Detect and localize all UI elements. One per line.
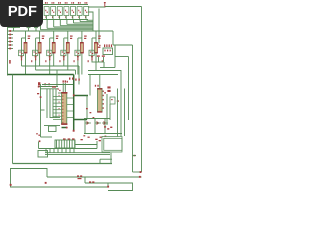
relay K2 outer box	[102, 137, 122, 153]
wire vertical x115	[114, 45, 116, 68]
testpoint TP1	[77, 175, 82, 179]
wire thick y95	[74, 95, 88, 97]
wire diode drop 1	[84, 119, 86, 134]
PDF badge	[0, 0, 43, 27]
label U9 pin numbers	[58, 88, 61, 91]
wire x115 stub	[114, 45, 116, 57]
wire capped stub 3	[34, 28, 38, 31]
wire vertical x121	[120, 70, 122, 136]
wire OK2 output drop	[46, 20, 48, 29]
junction right y177	[139, 176, 141, 178]
resistor R1	[22, 31, 31, 75]
wire lower bus y70	[36, 69, 76, 71]
diode VD5	[75, 50, 80, 60]
relay K2 inner box	[104, 138, 122, 150]
wire x40 corner y137	[41, 136, 53, 138]
resistor R6	[92, 31, 101, 70]
component box M1	[110, 97, 119, 104]
diode D1	[85, 121, 91, 125]
resistor R2	[36, 31, 45, 70]
wire OK8 output run	[87, 19, 93, 21]
label red pins	[45, 83, 57, 87]
label U9 pin number 3	[58, 108, 61, 109]
label red scatter b	[104, 92, 106, 93]
wire x85 drop	[84, 177, 86, 183]
wire diode-row bottom	[84, 133, 122, 135]
wire bus-wire b0	[46, 89, 48, 118]
ground symbol box	[49, 126, 57, 132]
IC U9 body	[61, 92, 67, 125]
wire y125 link	[44, 125, 60, 127]
wire OK5 output run	[67, 23, 93, 25]
wire OK3 output run	[54, 26, 93, 28]
wire U9 left pin 6	[53, 109, 62, 111]
wire x38 drop	[38, 142, 40, 149]
label net dash 3	[59, 60, 60, 62]
wire label stub b	[103, 57, 105, 62]
wire bus-wire b1	[49, 89, 51, 118]
wire OK6 output drop	[73, 20, 75, 23]
wire lower bus y62	[92, 61, 105, 63]
wire main bus	[8, 30, 114, 32]
wire OK7 output run	[80, 21, 93, 23]
optocoupler OK4	[57, 2, 62, 19]
junction U9 bottom	[66, 127, 68, 129]
diode VD2	[33, 50, 38, 60]
label net dash 5	[88, 60, 89, 62]
wire OK2 output run	[47, 27, 93, 29]
wire right y74 run	[88, 74, 118, 76]
label JP1	[89, 181, 94, 183]
wire y56 link	[115, 56, 129, 58]
wire U9 left stub	[58, 92, 62, 94]
diode VD1	[19, 50, 24, 60]
junction U-bottom	[140, 171, 142, 173]
symbol red SJ2	[107, 86, 110, 92]
wire left long vertical x12	[12, 75, 14, 164]
label net dash 4	[74, 60, 75, 62]
connector K1 teeth	[57, 140, 75, 148]
wire OK5 output drop	[66, 20, 68, 25]
wire capped stub 2	[27, 28, 31, 31]
switch S1 box	[38, 151, 48, 158]
label red x37	[37, 93, 39, 94]
wire y86 link	[39, 86, 59, 88]
wire U9 left pin 8	[53, 115, 62, 117]
label red scatter a	[86, 108, 94, 118]
wire thick y119	[74, 119, 87, 121]
wire jog segment	[88, 12, 93, 31]
supply symbol +5V top	[104, 2, 106, 7]
wire U10 top stub	[99, 75, 101, 89]
wire K1 pin drops	[46, 149, 74, 153]
label red GND	[36, 133, 40, 136]
wire lower bus y67	[100, 67, 115, 69]
wire vertical x42	[40, 84, 42, 137]
connector J1 stem	[7, 25, 9, 76]
optocoupler OK5	[64, 2, 69, 19]
label net dash 6	[102, 60, 103, 62]
wire OK7 output drop	[79, 20, 81, 22]
wire diode drop 2	[94, 119, 96, 134]
wire diode drop 3	[104, 119, 106, 134]
junction x108	[107, 186, 109, 188]
wire jumper stub	[99, 159, 101, 163]
wire label stub a	[98, 57, 100, 62]
wire jumper y159	[100, 158, 112, 160]
wire right vertical net GND	[132, 45, 134, 172]
label net dash 1	[31, 60, 32, 62]
wire U9 left pin 5	[53, 105, 62, 107]
wire double bus lower	[45, 153, 110, 155]
wire diode-row top	[84, 118, 110, 120]
wire row1 lower bus	[37, 19, 88, 21]
wire U9 top stub a	[62, 83, 64, 92]
wire pin-row y88	[41, 88, 59, 90]
label red cluster mid	[104, 126, 112, 129]
label U9 pin number 2	[58, 101, 61, 102]
wire y144	[75, 144, 97, 146]
wire long y163	[13, 163, 113, 165]
optocoupler OK1	[38, 2, 43, 19]
diode VD6	[89, 50, 94, 60]
wire x108 link	[107, 183, 109, 187]
wire bus-wire b2	[52, 89, 54, 118]
label net dash 2	[45, 60, 46, 62]
resistor-network U10	[97, 88, 103, 113]
wire bottom loop	[11, 169, 109, 188]
label U9 pin number 1	[58, 95, 61, 96]
optocoupler OK3	[51, 2, 56, 19]
connector K1 body	[55, 140, 75, 148]
junction dot	[38, 86, 40, 88]
junction x45	[45, 182, 47, 184]
wire OK4 output drop	[59, 20, 61, 26]
resistor R3	[50, 31, 59, 75]
label red node N1	[97, 43, 100, 47]
wire vertical node N1	[98, 9, 100, 44]
resistor R5	[78, 31, 87, 75]
wire x87 drop	[86, 96, 88, 120]
diode VD4	[61, 50, 66, 60]
wire lower bus y66	[22, 65, 80, 67]
wire y66 corner drop	[78, 66, 80, 85]
label U9 pin number 4	[58, 115, 61, 116]
label red below diodes	[83, 135, 106, 138]
wire U9 left pin 3	[53, 99, 62, 101]
wire U9 right pin 2	[67, 104, 74, 106]
wire U9 left pin 4	[53, 102, 62, 104]
junction dot left of K1	[39, 140, 41, 142]
wire thick bus y74	[8, 74, 74, 76]
wire OK1 output drop	[40, 20, 42, 30]
wire OK8 output drop	[86, 19, 88, 22]
connector J1 pin 6	[8, 48, 14, 50]
junction thick bottom	[73, 130, 75, 132]
optocoupler OK6	[71, 2, 76, 19]
connector J1 pin 4	[8, 41, 14, 43]
wire x40 stub y110	[41, 109, 45, 111]
label red above U9	[63, 80, 68, 82]
wire y148	[39, 148, 98, 150]
wire U9 right pin 3	[67, 110, 74, 112]
wire x128 vertical	[128, 57, 130, 121]
connector J1 pin 7	[9, 60, 11, 64]
wire U9 left pin 7	[53, 112, 62, 114]
wire right y70 run	[88, 70, 121, 72]
wire y84 feed	[42, 84, 74, 86]
wire x107 vertical	[106, 94, 108, 125]
junction bottom-left	[10, 184, 12, 186]
wire capped stub 1	[12, 28, 16, 31]
wire x124 vertical	[124, 89, 126, 137]
connector J1 pin 2	[8, 34, 14, 36]
wire U9 bottom	[62, 127, 68, 129]
wire bus-wire b3	[55, 89, 57, 118]
connector CN1 body	[103, 48, 113, 55]
connector CN1 pins	[104, 44, 112, 51]
wire bus drop to CN1	[112, 31, 114, 45]
wire x90 stub	[89, 75, 91, 96]
label net names	[97, 55, 105, 56]
wire OK3 output drop	[53, 20, 55, 28]
wire top bus upper	[37, 4, 88, 6]
diode D2	[95, 121, 101, 125]
label red above K1	[63, 138, 75, 139]
wire bottom-right loop	[108, 183, 133, 191]
optocoupler OK8	[84, 2, 89, 19]
wire corner x104	[103, 62, 105, 68]
wire CN1 to right net	[113, 44, 133, 46]
wire U9 right pin 1	[67, 97, 74, 99]
wire U9 right pin 4	[67, 117, 74, 119]
wire double bus upper	[45, 152, 110, 154]
wire top bus to right edge	[88, 6, 142, 9]
resistor R4	[64, 31, 73, 70]
connector J1 pin 5	[8, 44, 14, 46]
connector J1 pin 1	[8, 30, 14, 32]
junction dot x42	[40, 96, 42, 98]
wire x97 drop	[96, 141, 98, 149]
wire U9 left pin 2	[53, 96, 62, 98]
optocoupler OK2	[44, 2, 49, 19]
wire x111 stub	[110, 153, 112, 164]
wire U-bottom right	[133, 171, 142, 173]
wire OK4 output run	[60, 25, 93, 27]
wire right-edge vertical net VCC	[141, 7, 143, 173]
diode D3	[102, 121, 108, 125]
wire y183 seg	[85, 182, 108, 184]
optocoupler OK7	[77, 2, 82, 19]
wire bus stub upper-left	[8, 27, 21, 29]
wire y117 link	[50, 117, 60, 119]
label red pins U10	[95, 85, 99, 87]
diode VD3	[47, 50, 52, 60]
label red right of K1	[81, 139, 101, 142]
wire U9 top stub b	[64, 83, 66, 92]
wire thick vertical x74	[73, 75, 75, 131]
label red right net	[133, 155, 137, 157]
label red cluster above thick	[69, 78, 80, 81]
wire drop x57	[56, 70, 58, 87]
symbol red SJ1	[38, 82, 40, 85]
connector J1 pin 3	[8, 37, 14, 39]
wire OK1 output run	[41, 29, 94, 31]
wire U9 left pin 9	[53, 119, 62, 121]
junction thick mid	[73, 94, 75, 96]
wire y177 long	[47, 176, 142, 178]
wire OK6 output run	[74, 22, 94, 24]
wire x110 vertical	[109, 104, 111, 120]
wire x117 vertical	[117, 89, 119, 137]
wire y70 corner drop	[75, 70, 77, 75]
